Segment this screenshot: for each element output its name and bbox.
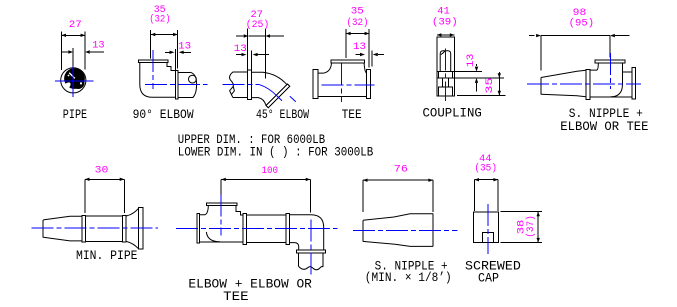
svg-text:S. NIPPLE +: S. NIPPLE +	[569, 107, 643, 121]
nipple elbow swage face	[540, 78, 542, 95]
svg-text:13: 13	[353, 41, 366, 53]
min pipe bottom edge	[85, 240, 122, 242]
dimension 13 line elbow45	[236, 53, 269, 56]
elbow elbow centerline vertical right	[310, 219, 312, 276]
90 elbow flange bar	[139, 60, 169, 63]
svg-text:13: 13	[234, 43, 247, 55]
90 elbow socket steps	[167, 63, 176, 71]
45 elbow body bottom edge	[252, 98, 267, 106]
dimension 35 vertical line	[498, 72, 501, 96]
screwed cap ext line left	[473, 180, 475, 211]
elbow elbow right bottom and fillet	[290, 243, 299, 251]
svg-text:COUPLING: COUPLING	[423, 106, 482, 120]
svg-text:MIN. PIPE: MIN. PIPE	[76, 249, 138, 263]
nipple elbow inner fillet arc	[611, 84, 623, 97]
nipple elbow ext line left	[540, 36, 542, 71]
screwed cap ext top right	[501, 211, 542, 213]
coupling band top line and ext A	[437, 71, 482, 73]
nipple elbow bottom edge	[590, 96, 632, 98]
s nipple bottom edge	[363, 241, 433, 246]
svg-text:35: 35	[484, 78, 496, 94]
coupling bottom ext line	[457, 94, 506, 96]
90 elbow short vertical	[175, 49, 177, 71]
dimension 13 vertical line	[475, 64, 478, 91]
coupling band bottom line and ext B	[437, 77, 504, 79]
dimension 27 line	[61, 34, 85, 37]
svg-text:(35): (35)	[474, 162, 497, 174]
tee left shoulder	[318, 63, 331, 73]
svg-text:45° ELBOW: 45° ELBOW	[256, 108, 309, 122]
elbow elbow middle pipe top	[246, 214, 286, 216]
svg-text:ELBOW OR TEE: ELBOW OR TEE	[560, 120, 648, 134]
elbow elbow inner fillet left	[206, 232, 220, 242]
elbow elbow top bar	[206, 203, 237, 206]
s nipple left face	[362, 220, 364, 241]
tee centerline vertical	[341, 64, 343, 102]
svg-text:CAP: CAP	[478, 272, 499, 286]
elbow elbow stub break wave	[299, 266, 324, 269]
dimension 44 line	[474, 178, 498, 181]
coupling centerline vertical	[444, 48, 446, 101]
dimension 35 line tee	[346, 32, 369, 35]
s nipple ext line left	[362, 180, 364, 212]
dimension 76 line	[363, 179, 433, 182]
nipple elbow right socket top edge	[623, 71, 633, 73]
90 elbow body outline	[140, 63, 176, 98]
nipple elbow ring	[586, 69, 590, 99]
nipple elbow top flange bar	[595, 60, 625, 63]
min pipe flange bar	[139, 208, 143, 250]
90 elbow centerline vertical	[152, 50, 154, 89]
svg-text:100: 100	[262, 165, 279, 177]
45 elbow face band	[266, 84, 290, 108]
45 elbow ext line right	[264, 29, 266, 79]
elbow elbow ext line left	[220, 179, 222, 200]
svg-text:76: 76	[394, 164, 408, 176]
elbow elbow bottom band	[296, 250, 325, 253]
dimension 98 line	[529, 34, 629, 37]
nipple elbow swage bottom edge	[541, 94, 586, 96]
svg-text:90° ELBOW: 90° ELBOW	[133, 108, 194, 122]
pipe end-view black fill	[58, 68, 85, 95]
tee right shoulder	[364, 63, 366, 73]
90 elbow centerline horizontal	[145, 84, 208, 86]
min pipe bell top	[126, 208, 138, 216]
elbow elbow ring2	[286, 214, 290, 245]
elbow elbow ext line right	[309, 179, 311, 212]
nipple elbow right flange bar	[632, 68, 635, 99]
nipple elbow body top fillet	[590, 63, 598, 70]
s nipple centerline	[353, 229, 457, 231]
90 elbow pipe bore circle	[189, 75, 197, 83]
svg-text:TEE: TEE	[223, 290, 249, 304]
s nipple top edge	[363, 214, 433, 221]
90 elbow pipe bottom edge	[178, 96, 193, 98]
dimension 13 line elbow90	[165, 51, 191, 54]
tee ext line right	[368, 29, 370, 68]
svg-text:(95): (95)	[569, 17, 594, 29]
pipe extension line center	[72, 48, 74, 67]
nipple elbow centerline vertical	[610, 53, 612, 89]
svg-text:LOWER DIM. IN ( ) : FOR 3000LB: LOWER DIM. IN ( ) : FOR 3000LB	[178, 146, 374, 160]
dimension 30 line	[85, 178, 124, 181]
tee flange left	[313, 70, 318, 99]
45 elbow short vertical	[251, 51, 253, 70]
pipe extension line left	[60, 32, 62, 71]
svg-text:PIPE: PIPE	[63, 108, 87, 122]
pipe centerline vertical	[72, 66, 74, 97]
45 elbow left pipe bottom edge	[233, 97, 248, 99]
45 elbow centerline dash beyond	[290, 96, 296, 102]
min pipe swage bottom edge	[43, 237, 82, 241]
dimension 38 vertical line	[537, 212, 540, 243]
min pipe band1	[82, 215, 86, 242]
nipple elbow ext line right	[609, 36, 611, 58]
s nipple ext line right	[432, 180, 434, 212]
svg-text:ELBOW + ELBOW OR: ELBOW + ELBOW OR	[188, 278, 312, 292]
tee flange right	[367, 70, 371, 99]
90 elbow ext line left	[150, 30, 152, 59]
screwed cap ext bottom right	[501, 242, 542, 244]
pipe extension line right	[84, 32, 86, 70]
nipple elbow branch right side	[622, 63, 624, 84]
svg-text:30: 30	[95, 165, 109, 177]
svg-text:13: 13	[178, 41, 191, 53]
tee ext line left	[345, 29, 347, 58]
nipple elbow swage top edge	[541, 70, 586, 77]
dimension 100 line	[221, 178, 310, 181]
elbow elbow ring1	[243, 214, 247, 245]
nipple elbow centerline horizontal	[527, 83, 641, 85]
dimension 13 line	[61, 50, 104, 53]
min pipe top edge	[85, 215, 122, 217]
elbow elbow right top and outer arc	[290, 215, 324, 250]
min pipe bell bottom	[126, 241, 138, 248]
45 elbow body top edge	[252, 72, 287, 84]
elbow elbow branch right side	[236, 206, 243, 215]
min pipe ext line right	[123, 179, 125, 213]
coupling outer body	[437, 37, 455, 96]
dimension 13 line tee	[356, 53, 385, 56]
s nipple right face	[432, 214, 434, 247]
svg-text:(25): (25)	[246, 19, 270, 31]
dimension 27 line elbow45	[236, 34, 284, 37]
elbow elbow stub left	[298, 253, 300, 267]
svg-text:(39): (39)	[432, 17, 458, 29]
min pipe ext line left	[84, 179, 86, 213]
elbow elbow branch left side	[200, 206, 209, 215]
tee short vertical	[371, 51, 373, 67]
45 elbow ext line left	[247, 29, 249, 70]
min pipe centerline	[32, 227, 159, 229]
svg-text:(32): (32)	[347, 17, 369, 29]
elbow elbow left bottom edge	[200, 241, 243, 243]
svg-text:13: 13	[465, 54, 477, 68]
tee centerline horizontal	[321, 84, 374, 86]
45 elbow break squiggle	[230, 72, 234, 87]
elbow elbow centerline horizontal	[176, 227, 337, 229]
90 elbow ext line right	[177, 30, 179, 68]
svg-text:(MIN. × 1/8’): (MIN. × 1/8’)	[365, 271, 452, 285]
45 elbow ring	[248, 70, 252, 100]
45 elbow centerline horizontal	[223, 84, 260, 86]
elbow elbow stub right	[322, 253, 324, 267]
svg-text:13: 13	[92, 40, 104, 52]
pipe end-view outline circle	[61, 68, 86, 93]
coupling foot	[439, 87, 453, 96]
dimension 35 line	[151, 33, 178, 36]
min pipe swage top edge	[43, 216, 82, 220]
svg-text:(37): (37)	[525, 215, 537, 238]
svg-text:35: 35	[351, 5, 364, 17]
screwed cap centerline	[487, 204, 489, 254]
svg-text:TEE: TEE	[342, 108, 362, 122]
45 elbow centerline bend	[260, 85, 283, 101]
90 elbow pipe end curve	[190, 72, 197, 97]
90 elbow pipe top edge	[178, 71, 190, 73]
coupling band inner verticals	[439, 72, 453, 78]
45 elbow break diamond	[230, 86, 235, 97]
screwed cap ext line right	[497, 180, 499, 211]
coupling stem	[443, 78, 449, 87]
elbow elbow centerline vertical left	[220, 194, 222, 235]
min pipe band2	[123, 215, 127, 242]
svg-text:27: 27	[69, 19, 82, 31]
tee top bar	[331, 60, 365, 63]
pipe centerline horizontal	[55, 80, 93, 82]
dimension 41 line	[437, 33, 455, 36]
90 elbow ring	[176, 71, 179, 100]
screwed cap body	[474, 212, 499, 243]
svg-text:(32): (32)	[149, 14, 170, 26]
45 elbow left pipe top edge	[233, 71, 248, 73]
coupling inner pipe top	[440, 51, 451, 72]
coupling pipe chamfer	[441, 51, 446, 55]
screwed cap inner stub	[483, 232, 494, 242]
min pipe swage face	[42, 220, 44, 237]
elbow elbow left flange bar	[197, 214, 200, 244]
elbow elbow middle pipe bottom	[246, 242, 286, 244]
tee bottom edge	[318, 95, 366, 97]
